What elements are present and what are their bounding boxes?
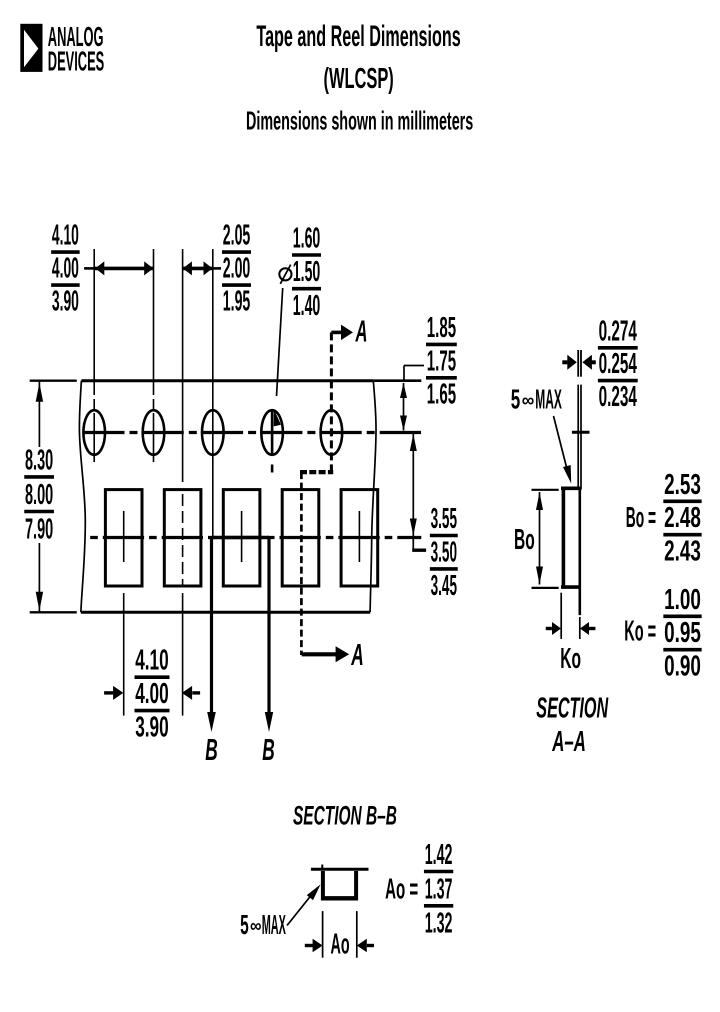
Analog Devices logo mark <box>20 24 42 72</box>
tape thickness tick right <box>580 350 582 377</box>
svg-text:Bo =: Bo = <box>626 500 656 533</box>
section A-A arrow bottom <box>302 652 336 656</box>
svg-text:0.274: 0.274 <box>599 314 637 347</box>
svg-text:1.60: 1.60 <box>293 221 320 254</box>
dimension text 1.85/1.75/1.65 <box>426 311 457 410</box>
svg-text:SECTION B–B: SECTION B–B <box>293 800 397 831</box>
section A-A pocket left wall <box>562 488 566 587</box>
leader bar to 3.50 <box>412 549 426 552</box>
svg-text:Ao: Ao <box>331 927 350 960</box>
svg-text:1.95: 1.95 <box>223 284 251 317</box>
section B-B pocket bottom <box>321 896 358 900</box>
dimension text 0.274/0.254/0.234 (tape thickness) <box>598 314 638 412</box>
component pocket 1 <box>105 490 142 586</box>
svg-text:1.50: 1.50 <box>293 255 320 288</box>
section A-A hole center tick <box>572 431 590 434</box>
svg-text:SECTION: SECTION <box>536 692 609 724</box>
svg-text:1.37: 1.37 <box>425 872 453 905</box>
leader 4.00 to dimension line <box>84 267 95 270</box>
Ko arrow right <box>589 627 596 630</box>
tape right edge <box>370 381 376 613</box>
svg-text:1.42: 1.42 <box>425 837 453 870</box>
section A-A arrow top <box>331 331 341 335</box>
section cut dashed line through hole 5 <box>330 332 333 472</box>
component pocket 5 <box>341 490 378 586</box>
tape width dimension line upper <box>38 382 40 448</box>
pocket 2 vertical extension line upper <box>182 249 184 482</box>
svg-text:1.32: 1.32 <box>425 906 453 939</box>
tape top edge extension right <box>373 379 421 382</box>
tape bottom edge <box>81 611 370 614</box>
tape thickness arrow left <box>562 360 567 364</box>
svg-text:0.234: 0.234 <box>599 380 637 413</box>
tape width extension line bottom <box>30 611 77 613</box>
svg-text:0.95: 0.95 <box>664 617 701 649</box>
5 deg MAX leader arrow (section B-B) <box>287 888 317 926</box>
section A-A tape wall right line <box>580 385 582 489</box>
svg-text:2.43: 2.43 <box>664 536 701 568</box>
sprocket hole 1 <box>83 410 105 455</box>
pocket 2 vertical extension line lower <box>182 593 184 716</box>
tape thickness tick left <box>577 350 579 377</box>
tape width arrow down <box>36 592 43 611</box>
Ao extension line left <box>322 911 324 958</box>
svg-text:∞: ∞ <box>250 915 261 937</box>
svg-text:MAX: MAX <box>262 909 286 941</box>
svg-text:∞: ∞ <box>522 389 534 411</box>
section B-B cut connector <box>212 536 270 539</box>
leader step to 1.75 <box>403 366 405 381</box>
dimension text 3.55/3.50/3.45 <box>430 502 458 601</box>
sprocket hole 2 <box>143 410 165 455</box>
Ko extension line right <box>579 617 581 639</box>
section A-A tape below pocket <box>578 488 581 615</box>
svg-text:B: B <box>205 733 217 768</box>
svg-text:2.53: 2.53 <box>664 469 701 501</box>
pocket pitch arrow left <box>104 691 113 694</box>
svg-text:7.90: 7.90 <box>25 512 53 545</box>
svg-text:Ko: Ko <box>560 642 581 674</box>
dimension text 8.30/8.00/7.90 <box>24 443 54 545</box>
svg-text:2.00: 2.00 <box>223 251 250 284</box>
svg-text:5: 5 <box>511 383 521 414</box>
svg-text:Tape and Reel Dimensions: Tape and Reel Dimensions <box>256 20 460 54</box>
5 deg MAX leader arrow (section A-A) <box>554 416 570 477</box>
svg-text:3.90: 3.90 <box>52 284 79 317</box>
svg-text:1.00: 1.00 <box>664 584 701 616</box>
tape width arrow up <box>36 383 43 402</box>
component pocket 4 <box>282 490 319 586</box>
hole 3 vertical extension line <box>212 249 214 536</box>
tape left edge <box>79 381 85 613</box>
section A-A tape wall left line <box>577 385 579 488</box>
svg-text:1.40: 1.40 <box>293 288 320 321</box>
component pocket 2 <box>164 490 201 586</box>
svg-text:8.00: 8.00 <box>25 477 53 510</box>
svg-text:A: A <box>351 638 364 673</box>
section B-B cut line right <box>267 538 270 714</box>
sprocket hole 5 <box>321 410 343 455</box>
section cut dashed jog <box>300 470 333 474</box>
Ao arrow right <box>367 944 374 947</box>
svg-text:A–A: A–A <box>552 727 586 759</box>
svg-text:4.00: 4.00 <box>52 251 79 284</box>
dimension text 2.53/2.48/2.43 <box>663 469 701 568</box>
dimension text 4.10/4.00/3.90 (hole pitch) <box>51 218 80 317</box>
svg-text:Ko =: Ko = <box>624 614 656 647</box>
tape top edge <box>81 379 373 382</box>
leader 2.00 to dimension line <box>213 267 221 270</box>
dimension text 1.42/1.37/1.32 <box>424 837 453 939</box>
svg-text:8.30: 8.30 <box>25 443 53 476</box>
svg-text:DEVICES: DEVICES <box>48 45 104 77</box>
tape width dimension line lower <box>38 543 40 612</box>
svg-text:(WLCSP): (WLCSP) <box>324 62 394 94</box>
edge-to-hole dimension arrows <box>403 383 405 431</box>
section A-A pocket bottom <box>561 585 580 589</box>
pocket 5 vertical center line <box>358 511 360 562</box>
Bo dimension arrows <box>539 492 541 585</box>
svg-text:1.65: 1.65 <box>427 377 456 410</box>
pocket 1 vertical center line <box>123 511 125 562</box>
Bo extension line top <box>532 489 559 491</box>
Ao extension line right <box>356 911 358 958</box>
section B-B pocket left wall <box>321 871 325 900</box>
holeCL-pocketCL dimension arrows <box>412 434 414 549</box>
dimension text 2.05/2.00/1.95 (hole to pocket) <box>222 218 251 317</box>
hole pitch dimension arrows <box>95 267 154 271</box>
svg-text:5: 5 <box>240 909 249 940</box>
svg-text:4.10: 4.10 <box>52 218 79 251</box>
Ko extension line left <box>560 593 562 639</box>
svg-text:3.45: 3.45 <box>431 569 457 601</box>
svg-text:1.75: 1.75 <box>427 344 456 377</box>
sprocket hole 4 <box>261 410 283 455</box>
sprocket hole center line (dash-dot) <box>80 431 422 434</box>
svg-text:Ao =: Ao = <box>385 872 418 905</box>
hole 1 vertical center line <box>93 249 95 462</box>
section B-B cut line left <box>210 538 213 714</box>
svg-text:2.05: 2.05 <box>223 218 251 251</box>
svg-text:0.90: 0.90 <box>664 651 701 683</box>
hole 2 vertical center line <box>153 249 155 462</box>
section cut dashed line through pocket 4 <box>300 472 303 655</box>
pocket pitch arrow right <box>192 691 200 694</box>
dimension text 4.10/4.00/3.90 (pocket pitch) <box>135 644 170 744</box>
Bo extension line bottom <box>532 587 559 589</box>
section B-B tape surface line <box>311 868 369 871</box>
diameter symbol <box>279 265 291 284</box>
component pocket 3 <box>223 490 260 586</box>
dimension text 1.00/0.95/0.90 <box>663 584 701 683</box>
tape thickness arrow right <box>590 360 596 364</box>
tape width extension line top <box>30 380 77 382</box>
svg-text:MAX: MAX <box>535 384 562 415</box>
svg-text:B: B <box>262 733 274 768</box>
hole 4 vertical center line <box>271 411 274 456</box>
pocket 2 vertical center line <box>182 494 184 586</box>
svg-text:3.90: 3.90 <box>135 711 168 744</box>
hole diameter leader arrow <box>277 288 283 396</box>
sprocket hole 3 <box>202 410 224 455</box>
svg-text:0.254: 0.254 <box>599 347 637 380</box>
svg-text:Bo: Bo <box>514 523 535 555</box>
section B-B pocket right wall <box>354 871 358 900</box>
svg-text:3.55: 3.55 <box>431 502 457 534</box>
svg-text:A: A <box>355 314 368 349</box>
Ko arrow left <box>546 627 552 630</box>
pocket 3 vertical center line <box>241 511 243 562</box>
pocket 1 vertical extension line lower <box>123 593 125 716</box>
svg-text:3.50: 3.50 <box>431 536 457 568</box>
svg-text:1.85: 1.85 <box>427 311 456 344</box>
svg-text:4.00: 4.00 <box>135 678 168 711</box>
section A-A pocket top <box>561 486 582 490</box>
hole-pocket dimension arrows <box>183 267 213 271</box>
svg-text:Dimensions shown in millimeter: Dimensions shown in millimeters <box>246 107 473 135</box>
Ao arrow left <box>305 944 313 947</box>
svg-text:2.48: 2.48 <box>664 502 701 534</box>
pocket center line (dash-dot) <box>85 536 421 539</box>
svg-text:4.10: 4.10 <box>135 644 168 677</box>
dimension text 1.60/1.50/1.40 (hole diameter) <box>292 221 321 321</box>
section B-B angle tick <box>321 865 323 870</box>
